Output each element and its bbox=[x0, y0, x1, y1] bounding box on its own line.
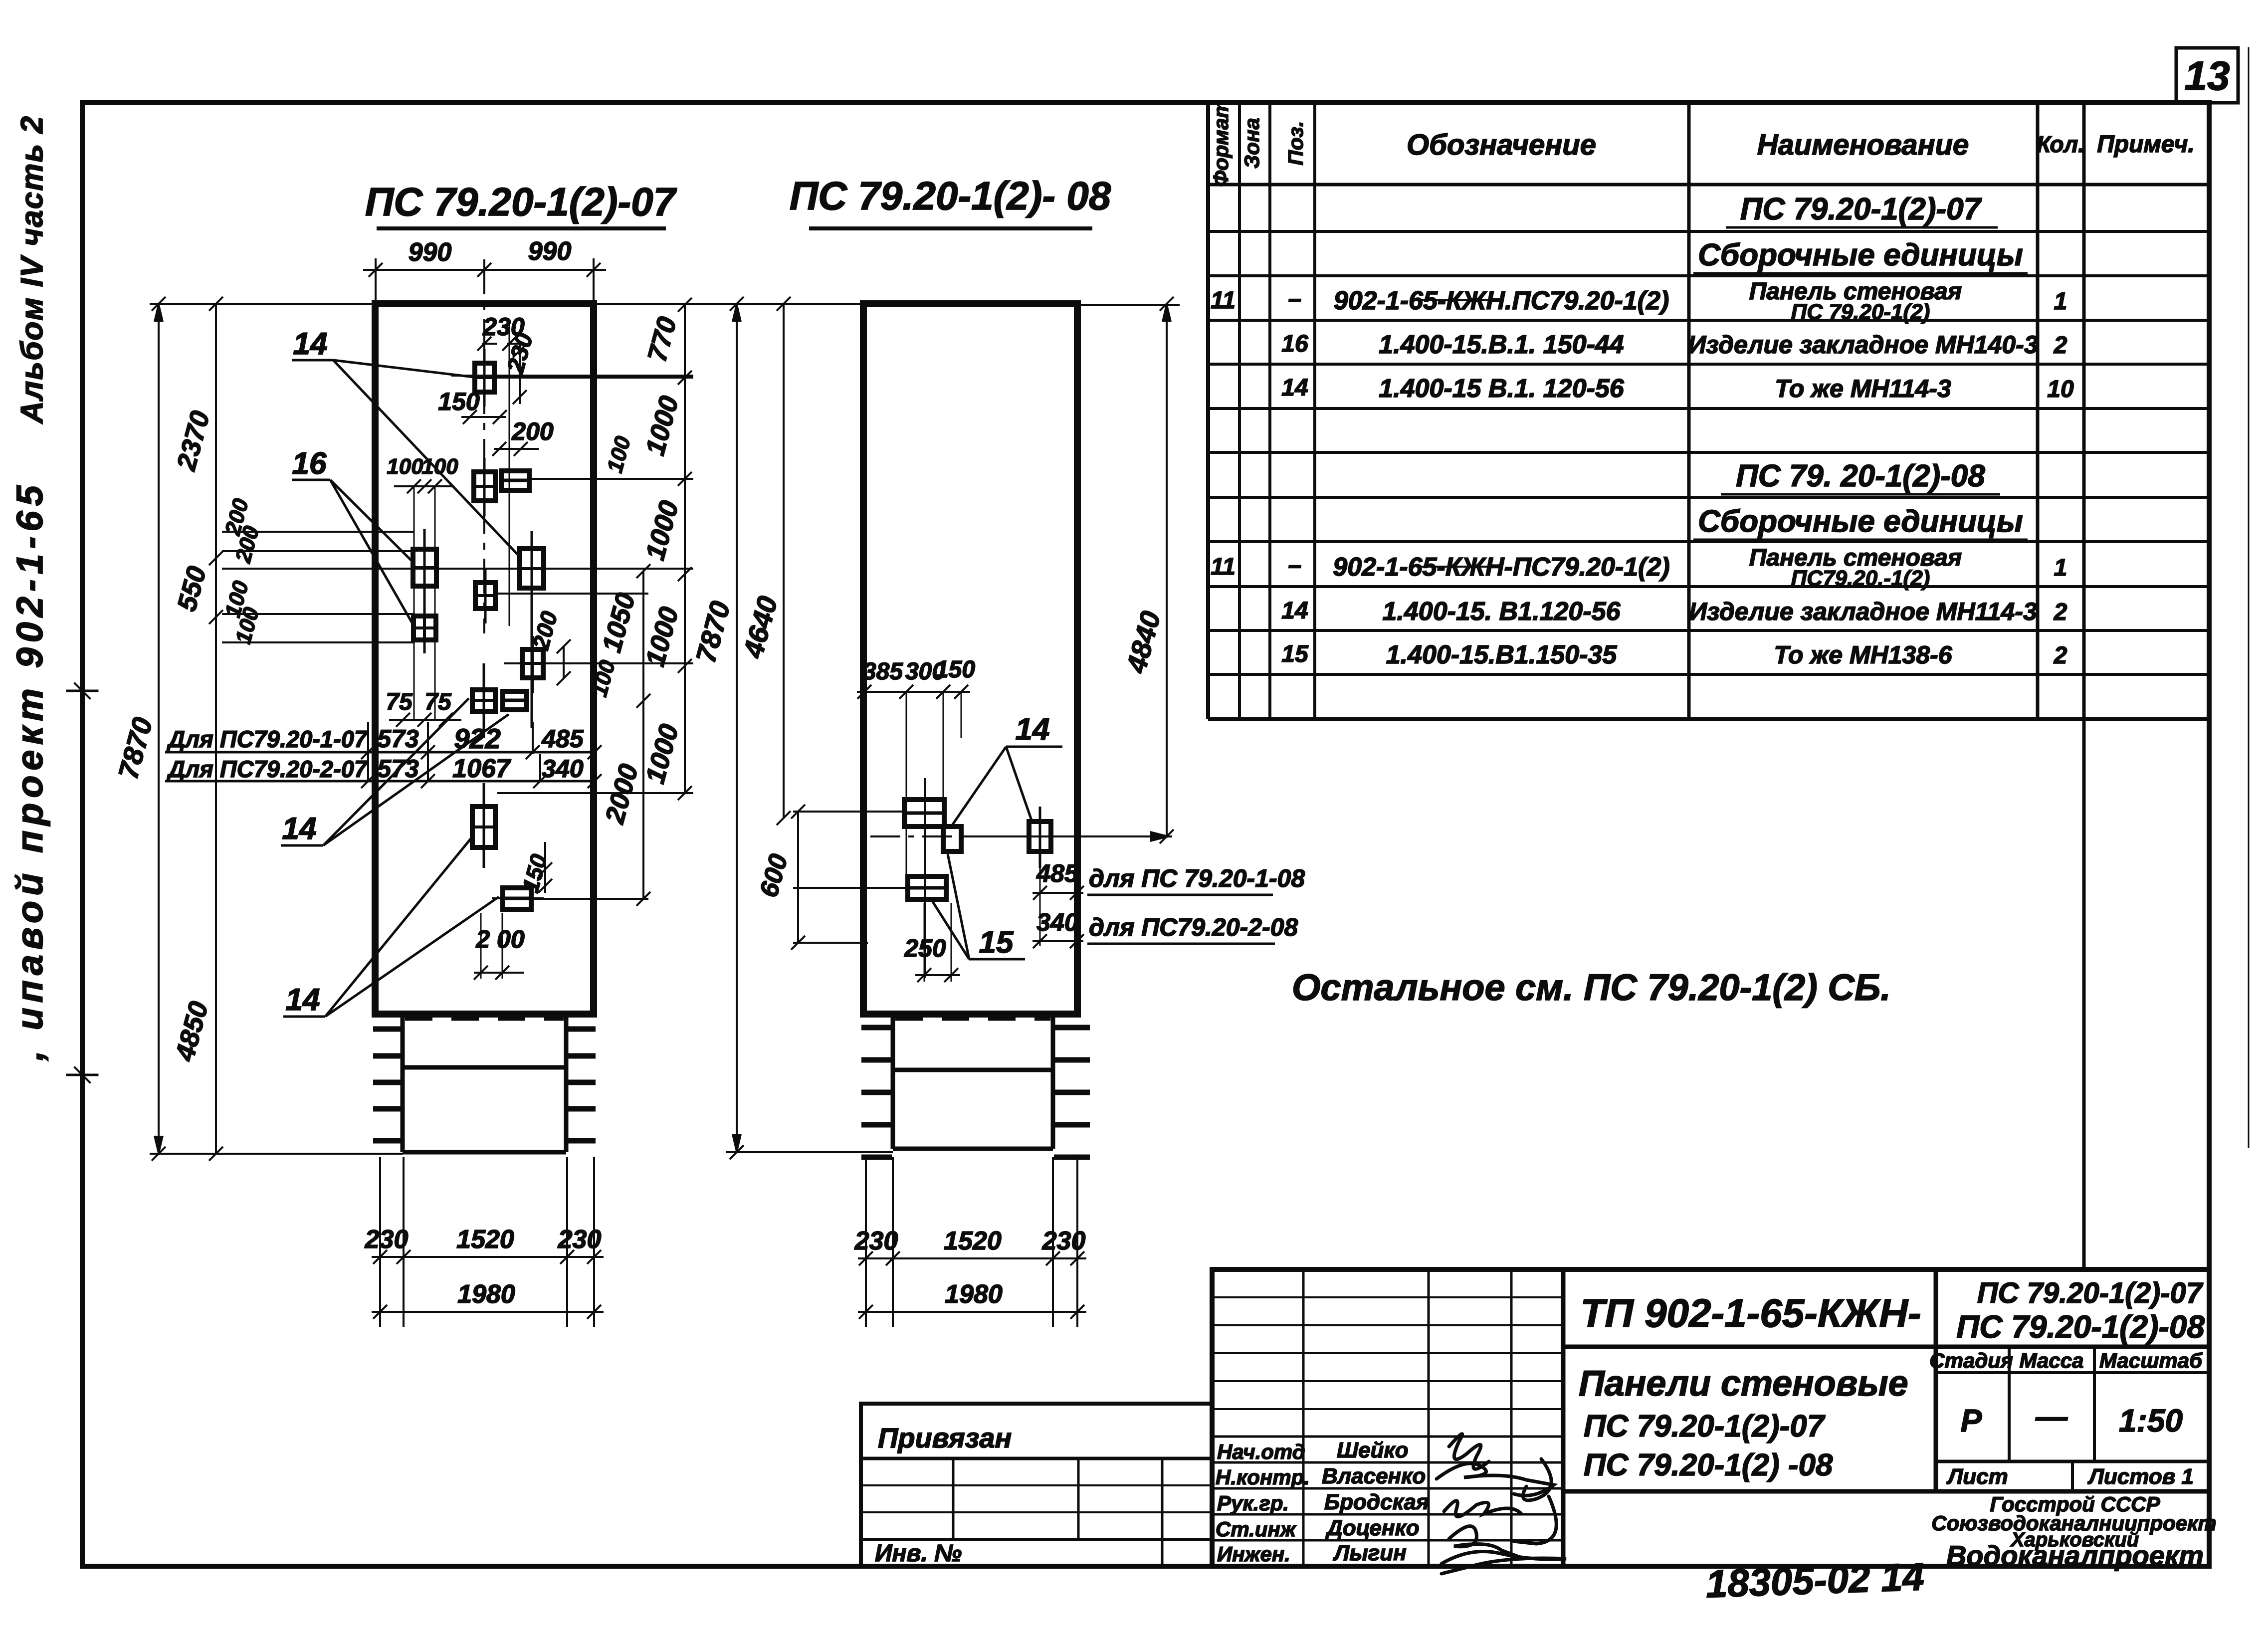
svg-text:Масса: Масса bbox=[2020, 1349, 2084, 1372]
LP-DIM-200C bbox=[557, 639, 571, 685]
RP-HATCH-L bbox=[861, 1028, 892, 1157]
SCAN-EDGE bbox=[2248, 48, 2250, 1147]
svg-text:150: 150 bbox=[517, 851, 552, 895]
svg-text:385: 385 bbox=[863, 658, 903, 685]
RP-PLATES bbox=[904, 778, 1051, 978]
svg-text:Стадия: Стадия bbox=[1929, 1349, 2013, 1372]
LP-TONGUE bbox=[401, 1014, 405, 1152]
svg-text:1: 1 bbox=[2054, 288, 2067, 315]
RP-EXT-TOP bbox=[594, 303, 863, 305]
svg-text:Власенко: Власенко bbox=[1322, 1464, 1426, 1488]
svg-text:Сборочные единицы: Сборочные единицы bbox=[1698, 238, 2023, 272]
svg-text:Лист: Лист bbox=[1946, 1464, 2008, 1489]
svg-text:990: 990 bbox=[409, 238, 452, 267]
svg-text:13: 13 bbox=[2184, 53, 2230, 99]
svg-text:16: 16 bbox=[292, 446, 327, 481]
LP-RIGHT-CONNECTORS bbox=[496, 378, 693, 899]
FRAME-TICK-1 bbox=[67, 690, 97, 692]
plate P2 bbox=[474, 458, 495, 516]
svg-text:75: 75 bbox=[424, 689, 452, 715]
svg-text:15: 15 bbox=[979, 925, 1014, 960]
svg-text:230: 230 bbox=[854, 1227, 898, 1255]
svg-text:14: 14 bbox=[293, 327, 328, 361]
LP-LEADER-14B bbox=[281, 698, 509, 845]
RP-LEADER-14 bbox=[950, 747, 1062, 828]
svg-text:1: 1 bbox=[2054, 555, 2067, 581]
RP-DIM-600 bbox=[791, 805, 910, 950]
plate PI bbox=[522, 636, 543, 693]
svg-text:15: 15 bbox=[1281, 641, 1309, 667]
svg-text:Сборочные единицы: Сборочные единицы bbox=[1698, 504, 2023, 539]
plate RP2 bbox=[943, 826, 961, 851]
svg-text:7870: 7870 bbox=[112, 714, 159, 783]
TABLE-OUTER bbox=[1206, 102, 1210, 719]
plate RP4 bbox=[908, 876, 946, 899]
svg-text:1:50: 1:50 bbox=[2119, 1403, 2183, 1439]
svg-text:1980: 1980 bbox=[945, 1280, 1003, 1309]
TB-LEFT-GRIDROWS bbox=[1212, 1296, 1563, 1298]
svg-text:230: 230 bbox=[558, 1225, 602, 1254]
svg-text:Панели стеновые: Панели стеновые bbox=[1579, 1364, 1908, 1404]
svg-text:ПС79.20.-1(2): ПС79.20.-1(2) bbox=[1791, 566, 1930, 591]
RP-EXT-BOTTOM bbox=[726, 1151, 893, 1153]
LP-HATCH-L bbox=[373, 1029, 402, 1141]
svg-text:Альбом IV часть 2: Альбом IV часть 2 bbox=[15, 115, 49, 424]
svg-text:230: 230 bbox=[1042, 1227, 1086, 1255]
svg-text:Поз.: Поз. bbox=[1284, 121, 1307, 166]
svg-text:ПС 79.20-1(2): ПС 79.20-1(2) bbox=[1791, 300, 1930, 324]
svg-text:2: 2 bbox=[2054, 642, 2067, 669]
svg-text:250: 250 bbox=[904, 934, 946, 962]
svg-text:Лыгин: Лыгин bbox=[1333, 1541, 1407, 1565]
RP-CHAIN-7870 bbox=[730, 297, 744, 1159]
svg-text:1000: 1000 bbox=[640, 721, 684, 787]
svg-text:2: 2 bbox=[2054, 332, 2067, 359]
svg-text:Нач.отд: Нач.отд bbox=[1217, 1440, 1305, 1463]
RP-CHAIN-4840 bbox=[1160, 297, 1174, 843]
svg-text:Рук.гр.: Рук.гр. bbox=[1217, 1491, 1289, 1515]
svg-text:, ипавой проект 902-1-65: , ипавой проект 902-1-65 bbox=[9, 480, 50, 1061]
LP-DIM-230V bbox=[513, 344, 527, 404]
LP-PLATES bbox=[413, 349, 544, 909]
LP-OUTLINE bbox=[375, 304, 594, 1014]
R2-UNDERLINE bbox=[1693, 272, 2028, 275]
svg-text:14: 14 bbox=[282, 812, 317, 846]
svg-text:340: 340 bbox=[1036, 908, 1078, 936]
LP-DIM-200B bbox=[474, 913, 524, 980]
TB-LEFT-COLS bbox=[1302, 1269, 1305, 1566]
FRAME-TICK-2 bbox=[67, 1074, 97, 1076]
svg-text:4840: 4840 bbox=[1120, 608, 1166, 677]
svg-text:ПС 79. 20-1(2)-08: ПС 79. 20-1(2)-08 bbox=[1736, 459, 1985, 493]
COL-LINE-BELOW-TABLE bbox=[2082, 719, 2086, 1269]
svg-text:1980: 1980 bbox=[457, 1280, 515, 1309]
svg-text:ПС 79.20-1(2)-07: ПС 79.20-1(2)-07 bbox=[1977, 1277, 2204, 1309]
svg-text:573: 573 bbox=[377, 725, 419, 753]
plate PJ2 bbox=[503, 691, 527, 710]
svg-text:ПС 79.20-1(2)- 08: ПС 79.20-1(2)- 08 bbox=[790, 174, 1111, 218]
TABLE-HEADER-BOTTOM bbox=[1208, 183, 2209, 187]
LP-CHAIN-B bbox=[636, 564, 650, 906]
PAGE-NUM-BOX bbox=[2176, 48, 2238, 103]
svg-text:11: 11 bbox=[1211, 287, 1236, 314]
svg-text:14: 14 bbox=[1281, 598, 1308, 624]
svg-text:Привязан: Привязан bbox=[878, 1422, 1012, 1453]
RP-HATCH-R bbox=[1054, 1028, 1090, 1157]
svg-text:Доценко: Доценко bbox=[1325, 1516, 1420, 1540]
svg-text:14: 14 bbox=[1016, 712, 1050, 747]
svg-text:Масштаб: Масштаб bbox=[2099, 1349, 2203, 1372]
TB-SIGNATURES bbox=[1437, 1434, 1566, 1574]
R9-STRIKE bbox=[1417, 566, 1501, 568]
svg-text:ПС 79.20-1(2)-07: ПС 79.20-1(2)-07 bbox=[1584, 1409, 1826, 1444]
R7-UNDERLINE bbox=[1721, 493, 2000, 496]
svg-text:Н.контр.: Н.контр. bbox=[1216, 1465, 1310, 1489]
TB-RIGHT-DIVIDERS bbox=[1934, 1269, 1938, 1491]
svg-text:ПС 79.20-1(2) -08: ПС 79.20-1(2) -08 bbox=[1584, 1448, 1833, 1482]
LP-MINITABLE bbox=[165, 722, 602, 788]
svg-text:Для ПС79.20-2-07: Для ПС79.20-2-07 bbox=[166, 756, 368, 782]
svg-text:4850: 4850 bbox=[170, 999, 214, 1065]
svg-text:Изделие закладное МН114-3: Изделие закладное МН114-3 bbox=[1689, 598, 2037, 625]
svg-text:1.400-15.В1.150-35: 1.400-15.В1.150-35 bbox=[1386, 640, 1618, 669]
plate PH bbox=[475, 569, 495, 623]
svg-text:200: 200 bbox=[511, 417, 554, 445]
svg-text:150: 150 bbox=[935, 656, 975, 683]
svg-text:–: – bbox=[1288, 286, 1302, 312]
svg-text:Обозначение: Обозначение bbox=[1407, 129, 1596, 161]
LP-AXIS-H bbox=[451, 375, 693, 377]
svg-text:1.400-15.В.1. 150-44: 1.400-15.В.1. 150-44 bbox=[1379, 330, 1624, 359]
svg-text:150: 150 bbox=[438, 388, 480, 415]
LP-DIM-150 bbox=[461, 410, 507, 424]
svg-text:100: 100 bbox=[421, 454, 458, 479]
LP-CHAIN-A bbox=[678, 298, 692, 800]
svg-text:Листов 1: Листов 1 bbox=[2087, 1464, 2194, 1489]
LP-LEADER-16 bbox=[292, 480, 413, 624]
plate P5 bbox=[520, 531, 544, 728]
svg-text:1.400-15. В1.120-56: 1.400-15. В1.120-56 bbox=[1382, 597, 1621, 626]
RP-DIM-340 bbox=[1032, 898, 1084, 948]
svg-text:14: 14 bbox=[1281, 375, 1308, 401]
R1-UNDERLINE bbox=[1726, 226, 1998, 229]
svg-text:1000: 1000 bbox=[640, 498, 684, 564]
plate P1 bbox=[475, 349, 494, 407]
svg-text:1.400-15 В.1. 120-56: 1.400-15 В.1. 120-56 bbox=[1379, 374, 1625, 403]
svg-text:для ПС79.20-2-08: для ПС79.20-2-08 bbox=[1089, 913, 1298, 941]
svg-text:Наименование: Наименование bbox=[1757, 129, 1969, 161]
RP-TONGUE bbox=[891, 1014, 895, 1149]
LP-LEFT-CONNECTORS bbox=[222, 532, 693, 642]
LP-AXIS-V bbox=[483, 259, 485, 633]
R8-UNDERLINE bbox=[1693, 539, 2028, 541]
svg-text:1000: 1000 bbox=[640, 393, 684, 459]
TABLE-ROWLINES bbox=[1208, 230, 2209, 233]
plate RP3 bbox=[1029, 807, 1051, 868]
svg-text:1520: 1520 bbox=[456, 1225, 514, 1254]
LP-BOTTOM-DIMS bbox=[372, 1157, 604, 1327]
svg-text:573: 573 bbox=[377, 755, 419, 783]
svg-text:902-1-65-КЖН.ПС79.20-1(2): 902-1-65-КЖН.ПС79.20-1(2) bbox=[1334, 286, 1669, 315]
LP-LEADER-14A bbox=[292, 360, 518, 555]
LP-CHAIN-7870 bbox=[152, 297, 166, 1161]
plate P4 bbox=[413, 616, 436, 640]
LP-DIM-100-100 bbox=[394, 479, 454, 721]
svg-text:18305-02 14: 18305-02 14 bbox=[1705, 1554, 1925, 1606]
svg-text:ПС 79.20-1(2)-08: ПС 79.20-1(2)-08 bbox=[1956, 1309, 2205, 1345]
TB-NAME-ROWS bbox=[1212, 1436, 1563, 1438]
svg-text:ПС 79.20-1(2)-07: ПС 79.20-1(2)-07 bbox=[1740, 192, 1982, 226]
svg-text:Остальное см. ПС 79.20-1(2): Остальное см. ПС 79.20-1(2) СБ. bbox=[1292, 967, 1891, 1008]
TABLE-COLS bbox=[1238, 102, 1241, 719]
svg-text:485: 485 bbox=[541, 725, 584, 753]
TB-OUTER bbox=[1212, 1269, 2209, 1566]
svg-text:Зона: Зона bbox=[1240, 118, 1263, 168]
svg-text:Формат: Формат bbox=[1209, 99, 1233, 187]
svg-text:Водоканалпроект: Водоканалпроект bbox=[1946, 1540, 2204, 1571]
RP-AXIS-H bbox=[963, 835, 1172, 837]
svg-text:2: 2 bbox=[2054, 599, 2067, 625]
RP-DIM-485 bbox=[1032, 851, 1084, 900]
svg-text:Ст.инж: Ст.инж bbox=[1216, 1517, 1297, 1541]
svg-text:1000: 1000 bbox=[640, 604, 684, 670]
plate P3 bbox=[413, 529, 436, 653]
svg-text:Р: Р bbox=[1961, 1403, 1982, 1439]
svg-text:Инжен.: Инжен. bbox=[1217, 1542, 1290, 1566]
svg-text:Кол.: Кол. bbox=[2037, 131, 2084, 157]
svg-text:Примеч.: Примеч. bbox=[2097, 131, 2195, 158]
svg-text:990: 990 bbox=[528, 237, 572, 266]
svg-text:Инв. №: Инв. № bbox=[875, 1540, 962, 1567]
svg-text:100: 100 bbox=[603, 433, 635, 475]
RP-LEADER-15 bbox=[933, 854, 1025, 959]
svg-text:7870: 7870 bbox=[690, 598, 736, 666]
svg-text:2370: 2370 bbox=[171, 408, 215, 474]
LP-CHAIN-LEFT2 bbox=[209, 297, 223, 1161]
svg-text:Шейко: Шейко bbox=[1337, 1438, 1409, 1462]
LP-DIM-230H bbox=[477, 322, 528, 626]
LP-HATCH-R bbox=[567, 1029, 596, 1141]
svg-text:2 00: 2 00 bbox=[475, 925, 525, 953]
svg-text:600: 600 bbox=[754, 851, 793, 900]
svg-text:Для ПС79.20-1-07: Для ПС79.20-1-07 bbox=[166, 726, 368, 752]
svg-text:ПС 79.20-1(2)-07: ПС 79.20-1(2)-07 bbox=[365, 180, 677, 224]
svg-text:ТП 902-1-65-КЖН-: ТП 902-1-65-КЖН- bbox=[1580, 1291, 1921, 1335]
plate PJ bbox=[472, 663, 495, 738]
plate RP1 bbox=[904, 778, 944, 978]
plate PC bbox=[501, 471, 529, 490]
LP-DIM-990 bbox=[363, 258, 606, 304]
svg-text:75: 75 bbox=[386, 689, 413, 715]
LP-EXT-BOTTOM bbox=[150, 1153, 403, 1155]
svg-text:14: 14 bbox=[286, 983, 320, 1017]
svg-text:11: 11 bbox=[1211, 554, 1236, 580]
svg-text:Бродская: Бродская bbox=[1324, 1490, 1429, 1514]
RP-BOTTOM-DIMS bbox=[858, 1157, 1086, 1327]
svg-text:550: 550 bbox=[172, 563, 212, 615]
RP-DIM-385-300-150 bbox=[857, 685, 970, 893]
svg-text:1050: 1050 bbox=[597, 590, 641, 656]
svg-text:770: 770 bbox=[642, 314, 682, 365]
RP-CHAIN-4640 bbox=[777, 297, 791, 825]
svg-text:То же МН138-6: То же МН138-6 bbox=[1774, 641, 1952, 669]
svg-text:1520: 1520 bbox=[944, 1227, 1002, 1255]
LP-DIM-75-75 bbox=[389, 713, 461, 727]
svg-text:То же МН114-3: То же МН114-3 bbox=[1775, 375, 1951, 403]
svg-text:16: 16 bbox=[1281, 331, 1308, 357]
svg-text:485: 485 bbox=[1036, 859, 1079, 887]
LP-LEADER-14C bbox=[283, 838, 499, 1017]
svg-text:1067: 1067 bbox=[452, 754, 511, 783]
LP-DIM-150V bbox=[538, 842, 552, 893]
svg-text:Изделие закладное МН140-3: Изделие закладное МН140-3 bbox=[1688, 331, 2038, 359]
svg-text:230: 230 bbox=[365, 1225, 409, 1254]
svg-text:для ПС 79.20-1-08: для ПС 79.20-1-08 bbox=[1089, 864, 1305, 892]
svg-text:10: 10 bbox=[2047, 376, 2074, 403]
RP-OUTLINE bbox=[863, 304, 1077, 1014]
LP-EXT-TOP bbox=[150, 303, 375, 305]
LP-DIM-200 bbox=[492, 442, 539, 456]
plate PK bbox=[472, 783, 495, 868]
svg-text:–: – bbox=[1288, 552, 1302, 579]
RP-DIM-250 bbox=[915, 903, 960, 982]
svg-text:—: — bbox=[2035, 1399, 2068, 1435]
svg-text:922: 922 bbox=[454, 723, 500, 754]
svg-text:100: 100 bbox=[387, 454, 423, 479]
R3-STRIKE bbox=[1412, 299, 1496, 301]
plate PL bbox=[492, 888, 544, 909]
svg-text:340: 340 bbox=[542, 755, 584, 783]
svg-text:4640: 4640 bbox=[737, 593, 783, 662]
